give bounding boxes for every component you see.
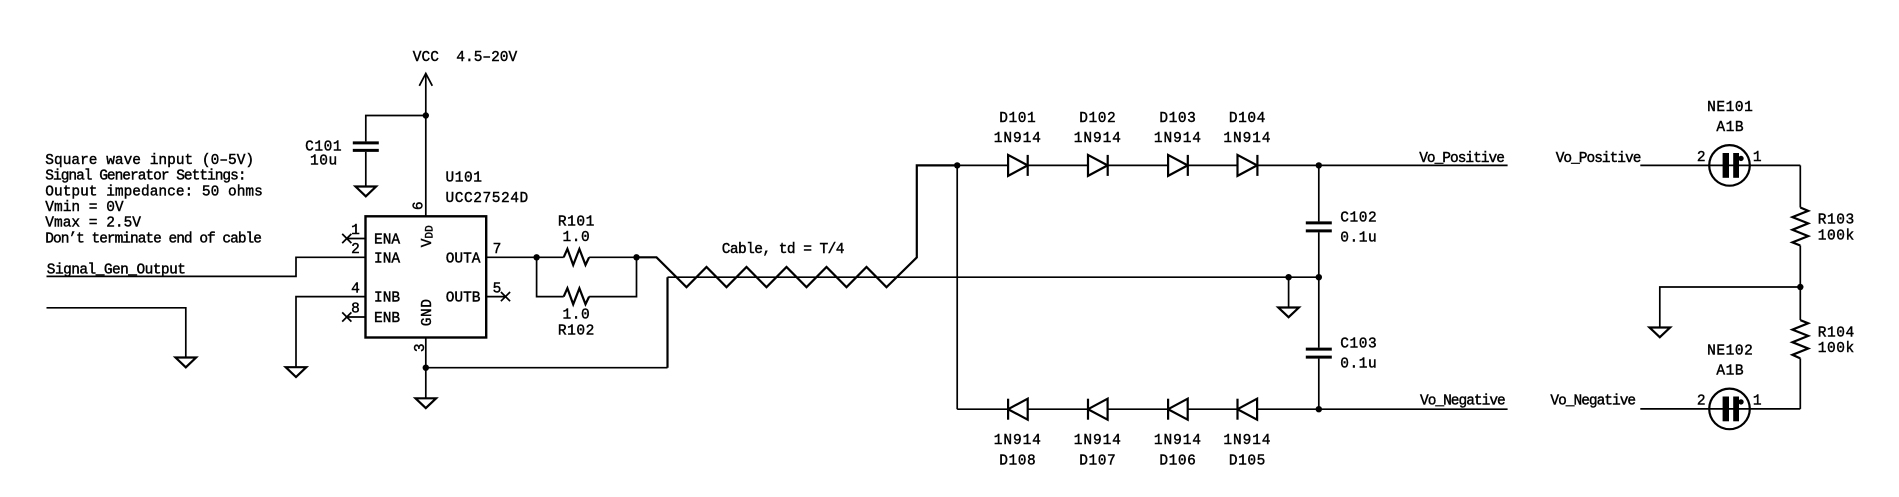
- svg-text:Cable, td = T/4: Cable, td = T/4: [722, 242, 844, 258]
- svg-text:1N914: 1N914: [994, 131, 1042, 147]
- capacitor C103: [1306, 337, 1378, 373]
- svg-text:D108: D108: [999, 454, 1036, 470]
- svg-text:D107: D107: [1079, 454, 1116, 470]
- wire Signal_Gen_Output to INA: [47, 257, 366, 276]
- right rail with C102 / C103: [1318, 165, 1320, 409]
- ground below C101: [356, 187, 377, 197]
- wire Vo_Negative to NE102: [1640, 408, 1800, 410]
- ground INB: [286, 367, 307, 377]
- svg-text:NE101: NE101: [1707, 100, 1753, 116]
- svg-text:OUTA: OUTA: [446, 251, 481, 267]
- ground mid (cable return): [1278, 277, 1299, 317]
- resistor R104: [1792, 320, 1854, 358]
- svg-text:OUTB: OUTB: [446, 291, 481, 307]
- diode D107: [1074, 399, 1122, 470]
- svg-text:1: 1: [351, 223, 360, 239]
- svg-text:NE102: NE102: [1707, 343, 1753, 359]
- resistor R101: [537, 215, 637, 265]
- svg-text:R102: R102: [558, 323, 595, 339]
- svg-text:INA: INA: [374, 251, 400, 267]
- wire top rail to Vo_Positive label: [1319, 164, 1508, 166]
- junction OUTA / R101: [533, 254, 539, 260]
- junction R103 / R104 / ground: [1797, 284, 1803, 290]
- junction U101 GND: [423, 365, 429, 371]
- svg-text:0.1u: 0.1u: [1340, 357, 1377, 373]
- svg-text:A1B: A1B: [1716, 120, 1744, 136]
- svg-text:D101: D101: [999, 111, 1036, 127]
- svg-text:1N914: 1N914: [1154, 433, 1202, 449]
- svg-text:10u: 10u: [310, 153, 338, 169]
- svg-text:1: 1: [1753, 393, 1762, 409]
- wire R104 to NE102: [1799, 358, 1801, 409]
- diode D105: [1223, 399, 1271, 470]
- svg-text:Vmin = 0V: Vmin = 0V: [45, 200, 124, 216]
- resistor R102: [537, 257, 637, 339]
- pin 1 ENA (no connect): [342, 223, 400, 248]
- wire left rail down to bottom diode string: [956, 165, 958, 409]
- svg-text:100k: 100k: [1818, 229, 1855, 245]
- wire bottom rail to Vo_Negative label: [1319, 408, 1508, 410]
- svg-text:INB: INB: [374, 291, 400, 307]
- svg-text:D104: D104: [1229, 111, 1266, 127]
- pin 8 ENB (no connect): [342, 302, 400, 327]
- svg-text:C102: C102: [1340, 211, 1377, 227]
- ground U101: [416, 368, 437, 408]
- svg-text:1.0: 1.0: [563, 230, 591, 246]
- svg-text:0.1u: 0.1u: [1340, 230, 1377, 246]
- neon lamp NE102: [1697, 343, 1762, 429]
- wire node to ground: [1660, 287, 1801, 328]
- pin 4 INB: [351, 281, 400, 306]
- cable return line: [668, 276, 1319, 278]
- diode D106: [1154, 399, 1202, 470]
- resistor R103: [1792, 208, 1854, 246]
- wire VCC to U101 VDD pin: [425, 74, 427, 217]
- svg-text:Vo_Negative: Vo_Negative: [1550, 394, 1635, 410]
- svg-text:Vo_Negative: Vo_Negative: [1420, 394, 1505, 410]
- svg-text:U101: U101: [446, 170, 483, 186]
- junction top right: [1316, 162, 1322, 168]
- ground right divider: [1650, 328, 1671, 338]
- junction bottom right: [1316, 406, 1322, 412]
- svg-text:3: 3: [413, 343, 429, 352]
- svg-text:1N914: 1N914: [994, 433, 1042, 449]
- wire NE101 to R103: [1799, 165, 1801, 207]
- svg-text:1N914: 1N914: [1154, 131, 1202, 147]
- svg-text:2: 2: [1697, 393, 1706, 409]
- svg-text:R101: R101: [558, 215, 595, 231]
- wire signal generator return: [47, 308, 186, 358]
- power symbol VCC: [413, 50, 518, 86]
- svg-text:1N914: 1N914: [1223, 433, 1271, 449]
- svg-text:1.0: 1.0: [563, 308, 591, 324]
- svg-text:6: 6: [412, 201, 428, 210]
- ground signal return: [176, 358, 197, 368]
- junction VCC / C101: [423, 112, 429, 118]
- svg-text:D106: D106: [1159, 454, 1196, 470]
- svg-text:2: 2: [1697, 150, 1706, 166]
- wire R103 to node: [1799, 246, 1801, 288]
- pin 5 OUTB (no connect): [446, 281, 510, 306]
- svg-text:Vo_Positive: Vo_Positive: [1556, 151, 1641, 167]
- pin 2 INA: [351, 242, 400, 267]
- junction top left of diode string: [954, 162, 960, 168]
- wire node to R104: [1799, 287, 1801, 320]
- junction cable return / rail: [1316, 274, 1322, 280]
- capacitor C101: [305, 139, 379, 186]
- svg-text:VCC 4.5–20V: VCC 4.5–20V: [413, 50, 518, 66]
- svg-text:ENB: ENB: [374, 311, 400, 327]
- svg-text:R103: R103: [1818, 213, 1855, 229]
- svg-text:D103: D103: [1159, 111, 1196, 127]
- diode D108: [994, 399, 1042, 470]
- cable (transmission line) zigzag: [637, 165, 958, 287]
- svg-text:7: 7: [493, 242, 502, 258]
- svg-text:GND: GND: [420, 298, 436, 326]
- junction cable return / ground: [1285, 274, 1291, 280]
- svg-text:D105: D105: [1229, 454, 1266, 470]
- svg-text:C103: C103: [1340, 337, 1377, 353]
- svg-text:2: 2: [351, 242, 360, 258]
- wire cable return riser: [666, 277, 668, 368]
- pin 3 GND: [413, 298, 436, 367]
- svg-text:1N914: 1N914: [1223, 131, 1271, 147]
- svg-text:A1B: A1B: [1716, 363, 1744, 379]
- svg-text:D102: D102: [1079, 111, 1116, 127]
- wire top diode row: [957, 164, 1319, 166]
- capacitor C102: [1306, 211, 1378, 247]
- svg-text:Output impedance: 50 ohms: Output impedance: 50 ohms: [45, 184, 263, 200]
- diode D102: [1074, 111, 1122, 176]
- wire C101 to VCC: [366, 116, 426, 142]
- junction R101 / R102: [633, 254, 639, 260]
- svg-text:100k: 100k: [1818, 341, 1855, 357]
- svg-text:5: 5: [493, 281, 502, 297]
- svg-text:R104: R104: [1818, 325, 1855, 341]
- svg-text:Square wave input (0–5V): Square wave input (0–5V): [45, 153, 254, 169]
- diode D103: [1154, 111, 1202, 176]
- neon lamp NE101: [1697, 100, 1762, 186]
- svg-text:Signal Generator Settings:: Signal Generator Settings:: [45, 169, 245, 185]
- diode D104: [1223, 111, 1271, 176]
- svg-text:8: 8: [351, 302, 360, 318]
- svg-text:Vo_Positive: Vo_Positive: [1419, 151, 1504, 167]
- svg-text:Don’t terminate end of cable: Don’t terminate end of cable: [45, 231, 261, 247]
- wire INB to ground: [296, 297, 366, 368]
- svg-text:1: 1: [1753, 150, 1762, 166]
- svg-text:1N914: 1N914: [1074, 131, 1122, 147]
- pin 6 VDD: [412, 201, 437, 247]
- U101 reference labels: [446, 170, 529, 207]
- diode D101: [994, 111, 1042, 176]
- IC U101 body: [366, 216, 487, 337]
- svg-text:Vmax = 2.5V: Vmax = 2.5V: [45, 216, 141, 232]
- svg-text:4: 4: [351, 281, 360, 297]
- pin 7 OUTA: [446, 242, 537, 267]
- wire U101 GND to cable return: [426, 367, 668, 369]
- note: signal generator settings text block: [45, 153, 263, 247]
- wire Vo_Positive to NE101: [1640, 164, 1800, 166]
- svg-text:UCC27524D: UCC27524D: [446, 191, 529, 207]
- svg-text:1N914: 1N914: [1074, 433, 1122, 449]
- svg-text:ENA: ENA: [374, 233, 400, 249]
- wire bottom diode row: [957, 408, 1319, 410]
